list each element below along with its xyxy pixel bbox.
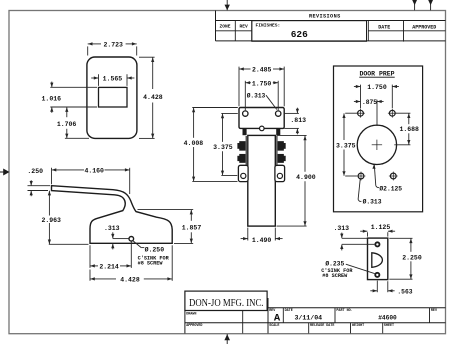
dim 2.485 [239, 67, 284, 107]
door prep panel outline [334, 66, 423, 212]
callout dia 2.125 leader [372, 164, 402, 193]
door prep bottom-right hole [389, 172, 398, 181]
svg-text:.250: .250 [27, 168, 43, 175]
svg-text:RELEASE DATE: RELEASE DATE [310, 324, 334, 328]
svg-text:A: A [274, 313, 281, 325]
svg-text:ZONE: ZONE [219, 23, 230, 29]
svg-text:Ø2.125: Ø2.125 [379, 185, 402, 193]
svg-text:4.160: 4.160 [84, 167, 104, 174]
dim 2.963 [41, 191, 88, 245]
door prep top-left hole [356, 109, 365, 118]
svg-text:Ø.235: Ø.235 [325, 260, 344, 268]
svg-text:1.750: 1.750 [367, 84, 387, 91]
top border center tick arrow [225, 0, 230, 10]
latch mounting plate outline [239, 108, 284, 129]
svg-text:.813: .813 [290, 117, 306, 124]
svg-text:4.428: 4.428 [143, 94, 163, 101]
dim 4.900 [277, 135, 316, 226]
svg-text:Ø.313: Ø.313 [363, 197, 382, 205]
svg-text:.875: .875 [362, 99, 377, 106]
svg-text:3.375: 3.375 [336, 143, 356, 150]
callout dia .235 csink strike [321, 260, 374, 279]
svg-text:4.900: 4.900 [296, 174, 316, 181]
svg-text:.313: .313 [104, 225, 120, 232]
strike plate bottom screw hole [375, 273, 379, 277]
lever handle and rose outline [52, 186, 173, 244]
top border right tick 1 [412, 0, 417, 10]
svg-text:APPROVED: APPROVED [412, 25, 436, 31]
svg-text:1.490: 1.490 [252, 237, 272, 244]
faceplate outline [87, 57, 137, 138]
top border right tick 2 [428, 0, 433, 10]
dim 4.160 [52, 167, 130, 194]
svg-text:.313: .313 [333, 225, 349, 232]
svg-text:3/11/04: 3/11/04 [294, 315, 322, 322]
svg-text:REV: REV [431, 309, 438, 313]
svg-text:4.008: 4.008 [184, 140, 204, 147]
svg-text:Ø.250: Ø.250 [145, 245, 165, 253]
svg-text:1.706: 1.706 [57, 121, 77, 128]
title block left grid [185, 298, 268, 333]
dim 1.125 [360, 224, 395, 237]
svg-text:1.125: 1.125 [371, 224, 391, 231]
dim .563 [370, 281, 412, 296]
latch plate right stub [277, 129, 280, 135]
dim 3.375 door prep [336, 113, 357, 176]
callout dia .250 csink leader [133, 241, 170, 267]
latch plate screw hole left [243, 111, 248, 116]
svg-text:DATE: DATE [378, 25, 390, 31]
right wing tab [275, 165, 285, 181]
bottom border center tick arrow [224, 334, 230, 344]
svg-text:DOOR PREP: DOOR PREP [359, 70, 394, 77]
svg-text:626: 626 [291, 29, 308, 40]
svg-text:1.750: 1.750 [252, 81, 272, 88]
svg-text:#4600: #4600 [378, 314, 397, 321]
lever rose mounting hole [129, 237, 134, 242]
svg-text:4.428: 4.428 [120, 276, 140, 283]
svg-text:REV: REV [239, 23, 248, 29]
svg-text:SHEET: SHEET [384, 324, 394, 328]
left border arrow marker [0, 169, 10, 176]
svg-text:2.963: 2.963 [41, 217, 61, 224]
strike plate outline [368, 238, 388, 280]
dim 2.214 [90, 242, 131, 271]
dim 1.706 [57, 107, 89, 138]
dim 1.750 door prep [354, 84, 399, 108]
revisions table grid [216, 11, 446, 42]
left wing hole [241, 173, 246, 178]
callout dia .313 latch holes [247, 93, 277, 110]
svg-text:1.857: 1.857 [182, 224, 202, 231]
dim 4.428 right of faceplate [139, 57, 163, 138]
dim .813 [284, 108, 306, 135]
latch plate screw hole right [276, 111, 281, 116]
latch plate left stub [243, 129, 246, 135]
svg-text:DON-JO MFG. INC.: DON-JO MFG. INC. [189, 297, 264, 309]
svg-text:SCALE: SCALE [269, 324, 279, 328]
strike plate top screw hole [375, 242, 379, 246]
dim .250 lever thickness [27, 168, 50, 196]
door prep bottom-left hole [357, 172, 366, 181]
strike plate latch D-hole [372, 253, 383, 267]
svg-text:2.214: 2.214 [99, 263, 119, 270]
right spring clip [277, 136, 286, 167]
dim 1.750 latch holes [245, 81, 278, 111]
dim .313 hole height [104, 225, 129, 249]
dim 4.428 under lever [90, 245, 172, 283]
latch tube body [248, 135, 275, 226]
dim 1.490 [241, 228, 283, 244]
svg-text:DRAWN: DRAWN [186, 313, 196, 317]
dim 1.016 [42, 82, 97, 113]
finishes value box [252, 21, 367, 42]
svg-text:Ø.313: Ø.313 [247, 93, 266, 100]
svg-text:PART NO.: PART NO. [336, 309, 352, 313]
title block company box [185, 291, 267, 310]
dim .875 door prep [354, 99, 384, 126]
svg-text:DATE: DATE [285, 309, 293, 313]
dim 3.375 latch [213, 113, 238, 175]
svg-text:2.485: 2.485 [252, 67, 272, 74]
svg-text:WEIGHT: WEIGHT [352, 324, 364, 328]
svg-text:1.016: 1.016 [42, 95, 62, 102]
svg-text:2.723: 2.723 [103, 41, 123, 48]
svg-text:#8 SCREW: #8 SCREW [322, 273, 348, 279]
dim 1.565 [91, 74, 134, 86]
door prep title [359, 70, 394, 77]
faceplate cutout window [99, 87, 128, 107]
svg-text:1.688: 1.688 [399, 126, 419, 133]
dim .313 strike [333, 225, 374, 251]
door prep top-right hole [388, 109, 397, 118]
svg-text:APPROVED: APPROVED [186, 324, 202, 328]
dim 4.008 [184, 108, 238, 182]
dim 2.250 [389, 238, 422, 279]
dim 1.857 [138, 210, 202, 244]
right wing hole [277, 173, 282, 178]
dim 1.688 [394, 113, 419, 145]
callout dia .313 leader door prep [358, 179, 382, 205]
svg-text:3.375: 3.375 [213, 144, 233, 151]
dim 2.723 [88, 41, 137, 55]
svg-text:2.250: 2.250 [402, 255, 422, 262]
left wing tab [238, 165, 248, 181]
svg-text:FINISHES:: FINISHES: [256, 22, 281, 28]
door prep bore circle dia 2.125 [357, 125, 396, 164]
svg-text:1.565: 1.565 [103, 75, 123, 82]
svg-text:#8 SCREW: #8 SCREW [138, 261, 164, 267]
latch plate center hole [260, 126, 265, 131]
title block right grid [268, 308, 446, 334]
left spring clip [238, 136, 247, 167]
svg-text:REVISIONS: REVISIONS [309, 13, 341, 19]
svg-text:.563: .563 [397, 289, 412, 296]
